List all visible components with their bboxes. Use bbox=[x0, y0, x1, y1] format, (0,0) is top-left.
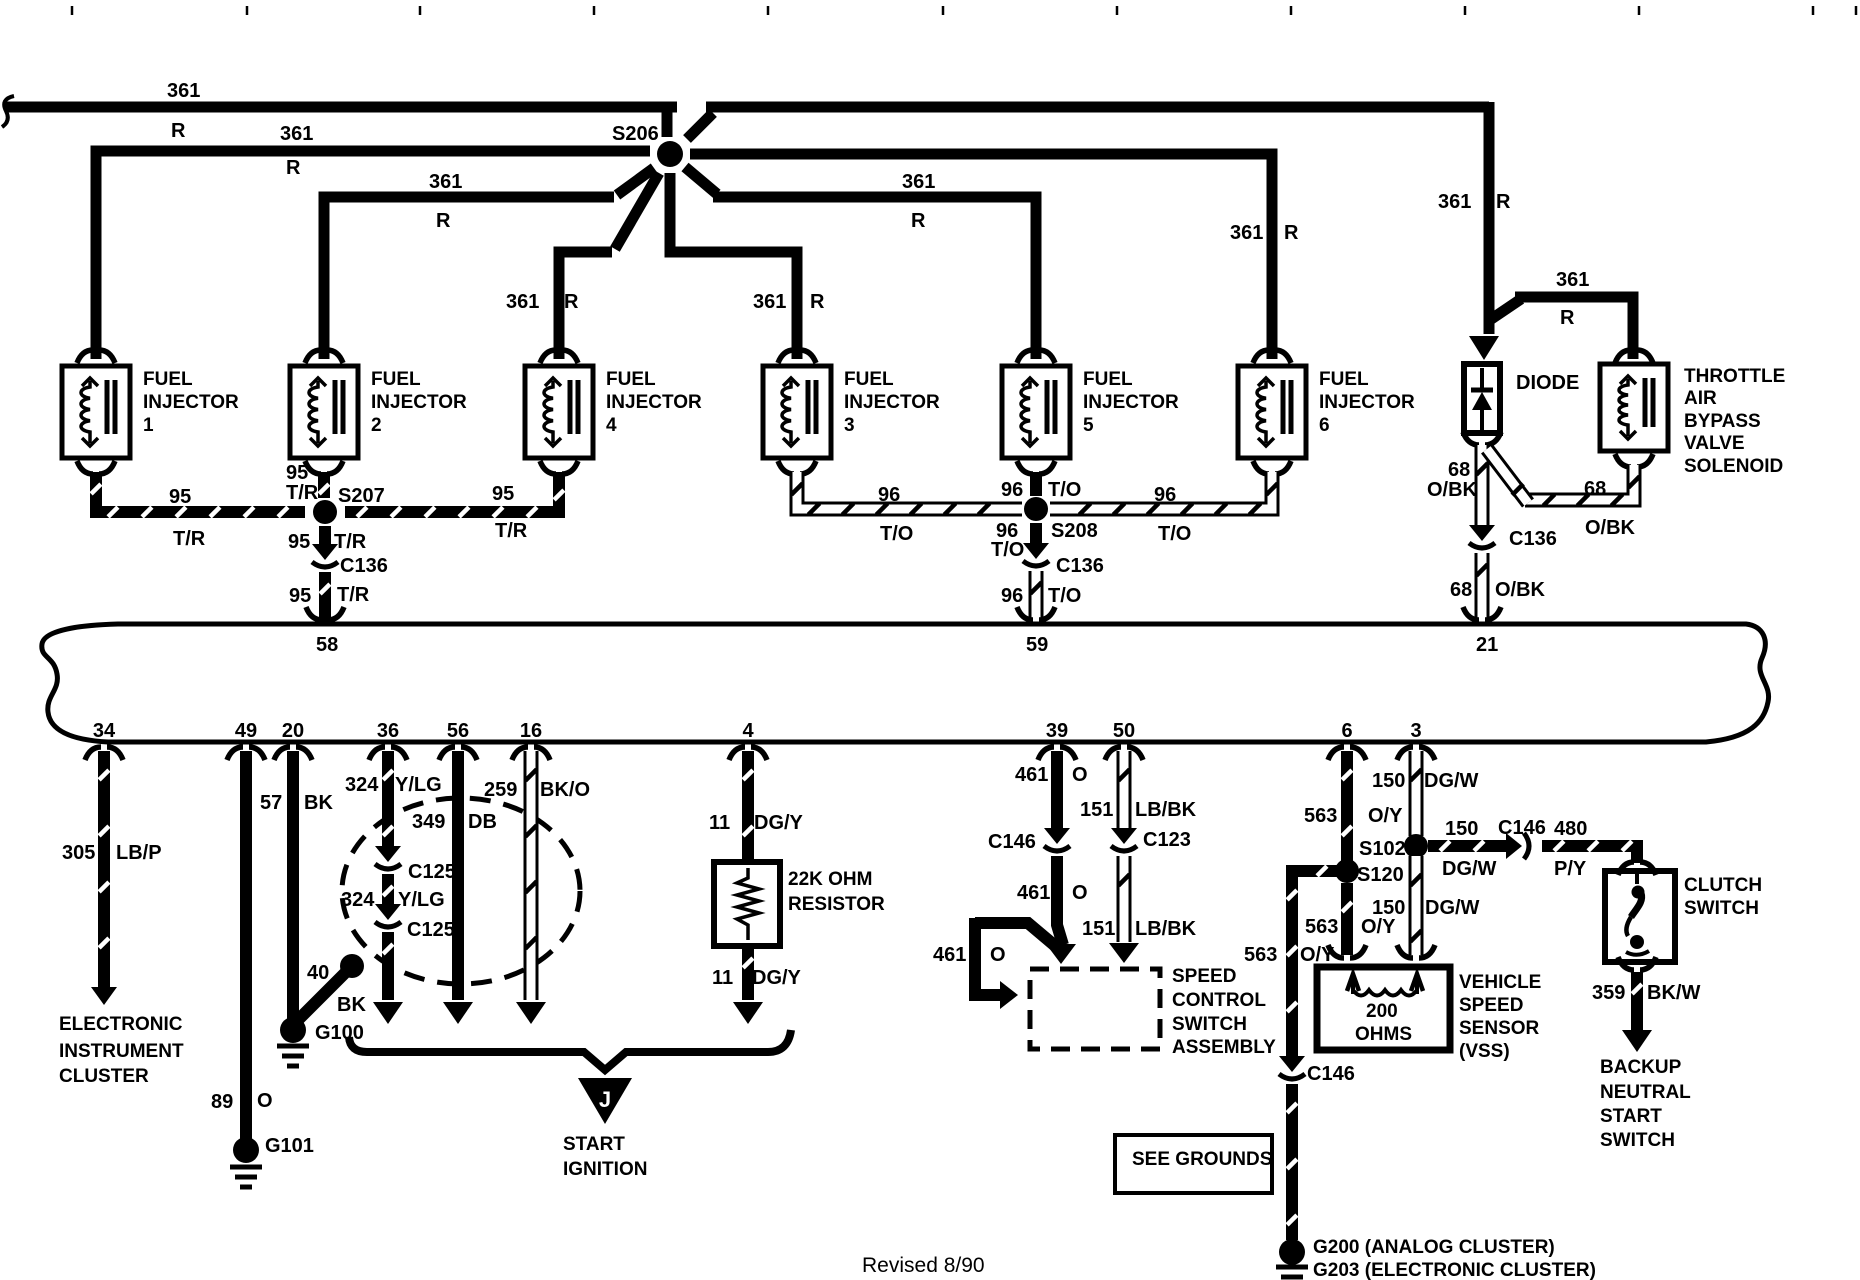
svg-text:R: R bbox=[1284, 222, 1299, 244]
svg-text:461: 461 bbox=[933, 944, 966, 966]
svg-text:CONTROL: CONTROL bbox=[1172, 990, 1266, 1011]
ground G200/G203 bbox=[1279, 1239, 1305, 1265]
connector C123 bbox=[1111, 828, 1137, 844]
connector C146 ground branch bbox=[1279, 1056, 1305, 1072]
splice S208 bbox=[1024, 497, 1048, 521]
svg-text:G101: G101 bbox=[265, 1135, 314, 1157]
svg-text:96: 96 bbox=[878, 484, 900, 506]
wire 57 BK bbox=[287, 751, 299, 1022]
wire 96 T/O inj3 to S208 bbox=[797, 472, 1022, 509]
svg-text:RESISTOR: RESISTOR bbox=[788, 894, 885, 915]
wire 95 T/R S207 down bbox=[319, 526, 331, 546]
connector C136 left bbox=[312, 544, 338, 560]
diode D (box) bbox=[1464, 364, 1500, 433]
svg-text:95: 95 bbox=[169, 486, 191, 508]
svg-text:VEHICLE: VEHICLE bbox=[1459, 972, 1541, 993]
wire 96 T/O to pin 59 bbox=[1029, 571, 1044, 622]
svg-text:FUEL: FUEL bbox=[844, 369, 894, 390]
pin 59 bus connector bbox=[1017, 607, 1033, 620]
svg-text:C136: C136 bbox=[1056, 555, 1104, 577]
svg-text:BACKUP: BACKUP bbox=[1600, 1057, 1682, 1078]
svg-text:68: 68 bbox=[1448, 459, 1470, 481]
svg-text:T/R: T/R bbox=[337, 584, 370, 606]
svg-text:96: 96 bbox=[1001, 479, 1023, 501]
svg-text:68: 68 bbox=[1450, 579, 1472, 601]
svg-text:R: R bbox=[1560, 307, 1575, 329]
svg-text:LB/BK: LB/BK bbox=[1135, 799, 1197, 821]
pin 49 connector bbox=[227, 747, 243, 760]
clutch switch bbox=[1605, 871, 1675, 962]
wire 68 O/BK solenoid branch bbox=[1525, 465, 1634, 500]
wire 95 T/R S207 to inj4 bbox=[345, 472, 559, 512]
pin 36 connector bbox=[369, 747, 385, 760]
arrow wire 36 bbox=[373, 1002, 403, 1024]
arrow wire 16 bbox=[516, 1002, 546, 1024]
svg-text:BYPASS: BYPASS bbox=[1684, 411, 1761, 432]
fuel injector 1 bbox=[62, 366, 130, 458]
pin 16 connector bbox=[512, 747, 528, 760]
svg-text:C146: C146 bbox=[1498, 817, 1546, 839]
svg-text:3: 3 bbox=[1410, 720, 1421, 742]
connector C146 horizontal bbox=[1506, 833, 1522, 859]
svg-text:LB/P: LB/P bbox=[116, 842, 162, 864]
pin 21 bus connector bbox=[1463, 607, 1479, 620]
svg-text:S120: S120 bbox=[1357, 864, 1404, 886]
svg-text:95: 95 bbox=[289, 585, 311, 607]
svg-text:361: 361 bbox=[506, 291, 539, 313]
connector C136 right bbox=[1469, 525, 1495, 541]
svg-text:FUEL: FUEL bbox=[371, 369, 421, 390]
svg-text:CLUTCH: CLUTCH bbox=[1684, 875, 1762, 896]
ground G101 bbox=[233, 1137, 259, 1163]
svg-text:START: START bbox=[1600, 1106, 1662, 1127]
svg-text:89: 89 bbox=[211, 1091, 233, 1113]
svg-text:DG/W: DG/W bbox=[1442, 858, 1497, 880]
clutch switch top connector bbox=[1618, 862, 1634, 875]
svg-text:ASSEMBLY: ASSEMBLY bbox=[1172, 1037, 1276, 1058]
pin 20 connector bbox=[274, 747, 290, 760]
fuel injector 6 top connector bbox=[1253, 350, 1269, 363]
svg-text:11: 11 bbox=[712, 967, 733, 989]
svg-text:59: 59 bbox=[1026, 634, 1048, 656]
wire 96 T/O inj6 to S208 bbox=[1050, 472, 1272, 509]
fuel injector 5 bbox=[1002, 366, 1070, 458]
wire 150 DG/W from S102 bbox=[1428, 840, 1508, 852]
svg-text:361: 361 bbox=[753, 291, 786, 313]
svg-text:O: O bbox=[1072, 764, 1088, 786]
svg-text:START: START bbox=[563, 1134, 625, 1155]
fuel injector 1 top connector bbox=[77, 350, 93, 363]
wire 151 LB/BK lower bbox=[1117, 856, 1132, 942]
wire 324 Y/LG lower bbox=[382, 932, 394, 1000]
svg-text:G200 (ANALOG CLUSTER): G200 (ANALOG CLUSTER) bbox=[1313, 1237, 1555, 1258]
wire to fuel injector 3 bbox=[670, 173, 797, 359]
svg-text:DG/Y: DG/Y bbox=[752, 967, 802, 989]
fuel injector 3 bbox=[763, 366, 831, 458]
svg-text:O/BK: O/BK bbox=[1585, 517, 1636, 539]
svg-text:SWITCH: SWITCH bbox=[1600, 1130, 1675, 1151]
svg-text:C125: C125 bbox=[408, 861, 456, 883]
fuel injector 1 bottom connector bbox=[77, 461, 93, 474]
svg-text:150: 150 bbox=[1372, 770, 1405, 792]
svg-text:34: 34 bbox=[93, 720, 116, 742]
svg-text:FUEL: FUEL bbox=[143, 369, 193, 390]
svg-text:BK: BK bbox=[304, 792, 333, 814]
svg-text:361: 361 bbox=[1230, 222, 1263, 244]
svg-text:FUEL: FUEL bbox=[606, 369, 656, 390]
svg-text:FUEL: FUEL bbox=[1319, 369, 1369, 390]
throttle air bypass valve solenoid top connector bbox=[1615, 350, 1631, 363]
fuel injector 3 bottom connector bbox=[778, 461, 794, 474]
svg-text:349: 349 bbox=[412, 811, 445, 833]
svg-text:J: J bbox=[599, 1087, 611, 1112]
svg-text:SPEED: SPEED bbox=[1459, 995, 1523, 1016]
svg-text:OHMS: OHMS bbox=[1355, 1024, 1412, 1045]
svg-text:SOLENOID: SOLENOID bbox=[1684, 456, 1783, 477]
svg-text:56: 56 bbox=[447, 720, 469, 742]
svg-text:Y/LG: Y/LG bbox=[398, 889, 445, 911]
brace start ignition bbox=[349, 1030, 791, 1070]
svg-text:461: 461 bbox=[1017, 882, 1050, 904]
svg-text:DIODE: DIODE bbox=[1516, 372, 1579, 394]
svg-text:S207: S207 bbox=[338, 485, 385, 507]
svg-text:150: 150 bbox=[1445, 818, 1478, 840]
svg-text:S208: S208 bbox=[1051, 520, 1098, 542]
svg-text:T/R: T/R bbox=[334, 531, 367, 553]
svg-text:95: 95 bbox=[286, 462, 308, 484]
svg-text:49: 49 bbox=[235, 720, 257, 742]
fuel injector 2 top connector bbox=[305, 350, 321, 363]
connector bubble C125 (dashed) bbox=[342, 798, 580, 984]
fuel injector 4 bbox=[525, 366, 593, 458]
wire 361 main feed (net 361, R) bbox=[6, 102, 677, 113]
svg-text:C125: C125 bbox=[407, 919, 455, 941]
svg-text:C146: C146 bbox=[988, 831, 1036, 853]
svg-text:INJECTOR: INJECTOR bbox=[844, 392, 940, 413]
svg-text:SENSOR: SENSOR bbox=[1459, 1018, 1540, 1039]
junction J marker bbox=[578, 1078, 632, 1124]
svg-text:R: R bbox=[911, 210, 926, 232]
fuel injector 6 bbox=[1238, 366, 1306, 458]
wire 40 BK jumper bbox=[294, 966, 352, 1024]
wire 324 Y/LG upper bbox=[382, 751, 394, 850]
wire 461 O stub bbox=[975, 923, 1060, 950]
pin 3 connector bbox=[1397, 747, 1413, 760]
svg-text:151: 151 bbox=[1082, 918, 1115, 940]
connector C146 pin39 bbox=[1044, 828, 1070, 844]
svg-text:151: 151 bbox=[1080, 799, 1113, 821]
fuel injector 2 bottom connector bbox=[305, 461, 321, 474]
svg-text:259: 259 bbox=[484, 779, 517, 801]
VSS right connector bbox=[1397, 945, 1413, 958]
svg-text:C123: C123 bbox=[1143, 829, 1191, 851]
svg-text:SWITCH: SWITCH bbox=[1684, 898, 1759, 919]
diode bottom connector bbox=[1463, 432, 1479, 445]
svg-text:O/Y: O/Y bbox=[1368, 805, 1403, 827]
svg-text:O/Y: O/Y bbox=[1300, 944, 1335, 966]
wire 259 BK/O bbox=[524, 751, 539, 1000]
svg-text:563: 563 bbox=[1305, 916, 1338, 938]
svg-text:CLUSTER: CLUSTER bbox=[59, 1066, 149, 1087]
svg-text:C136: C136 bbox=[1509, 528, 1557, 550]
arrow wire 4 bbox=[733, 1002, 763, 1024]
svg-text:T/O: T/O bbox=[991, 539, 1024, 561]
wire to fuel injector 4 bbox=[559, 252, 612, 359]
svg-text:O: O bbox=[990, 944, 1006, 966]
wire to fuel injector 2 bbox=[324, 197, 614, 359]
svg-text:58: 58 bbox=[316, 634, 338, 656]
throttle air bypass valve solenoid bbox=[1600, 364, 1668, 451]
svg-text:4: 4 bbox=[606, 415, 617, 436]
svg-text:11: 11 bbox=[709, 812, 730, 834]
svg-text:VALVE: VALVE bbox=[1684, 433, 1745, 454]
fuel injector 5 bottom connector bbox=[1017, 461, 1033, 474]
svg-text:6: 6 bbox=[1341, 720, 1352, 742]
svg-text:21: 21 bbox=[1476, 634, 1498, 656]
wire 68 O/BK to pin 21 bbox=[1475, 553, 1490, 622]
arrow to instrument cluster bbox=[91, 987, 117, 1005]
fuel injector 4 bottom connector bbox=[540, 461, 556, 474]
svg-text:461: 461 bbox=[1015, 764, 1048, 786]
fuel injector 4 top connector bbox=[540, 350, 556, 363]
svg-text:T/R: T/R bbox=[173, 528, 206, 550]
splice S207 bbox=[313, 500, 337, 524]
svg-text:T/O: T/O bbox=[1048, 479, 1081, 501]
svg-text:39: 39 bbox=[1046, 720, 1068, 742]
svg-text:40: 40 bbox=[307, 962, 329, 984]
svg-text:T/O: T/O bbox=[880, 523, 913, 545]
svg-text:S206: S206 bbox=[612, 123, 659, 145]
svg-text:R: R bbox=[436, 210, 451, 232]
svg-text:O/BK: O/BK bbox=[1427, 479, 1478, 501]
speed control switch assembly (dashed box) bbox=[1030, 969, 1160, 1049]
svg-text:480: 480 bbox=[1554, 818, 1587, 840]
svg-text:150: 150 bbox=[1372, 897, 1405, 919]
svg-text:6: 6 bbox=[1319, 415, 1330, 436]
svg-text:G100: G100 bbox=[315, 1022, 364, 1044]
svg-text:R: R bbox=[171, 120, 186, 142]
svg-text:4: 4 bbox=[742, 720, 754, 742]
svg-text:O: O bbox=[1072, 882, 1088, 904]
vehicle speed sensor 200 ohms bbox=[1317, 967, 1450, 1050]
clutch switch bottom connector bbox=[1618, 957, 1634, 970]
arrow wire 39 into speed control bbox=[1046, 944, 1076, 964]
svg-text:P/Y: P/Y bbox=[1554, 858, 1587, 880]
ECM connector bus bar bbox=[42, 624, 1769, 742]
svg-text:G203 (ELECTRONIC CLUSTER): G203 (ELECTRONIC CLUSTER) bbox=[1313, 1260, 1596, 1280]
svg-text:SWITCH: SWITCH bbox=[1172, 1014, 1247, 1035]
svg-text:O/Y: O/Y bbox=[1361, 916, 1396, 938]
svg-text:68: 68 bbox=[1584, 478, 1606, 500]
wire to fuel injector 5 bbox=[685, 167, 717, 194]
pin 50 connector bbox=[1105, 747, 1121, 760]
svg-text:20: 20 bbox=[282, 720, 304, 742]
svg-text:O/BK: O/BK bbox=[1495, 579, 1546, 601]
fuel injector 5 top connector bbox=[1017, 350, 1033, 363]
svg-text:50: 50 bbox=[1113, 720, 1135, 742]
svg-text:DG/W: DG/W bbox=[1424, 770, 1479, 792]
svg-text:5: 5 bbox=[1083, 415, 1094, 436]
wire 461 O lower bbox=[1057, 856, 1063, 945]
pin 6 connector bbox=[1328, 747, 1344, 760]
svg-text:INSTRUMENT: INSTRUMENT bbox=[59, 1041, 184, 1062]
svg-text:O: O bbox=[257, 1090, 273, 1112]
svg-text:361: 361 bbox=[902, 171, 935, 193]
pin 39 connector bbox=[1038, 747, 1054, 760]
svg-text:R: R bbox=[286, 157, 301, 179]
svg-text:T/R: T/R bbox=[495, 520, 528, 542]
wire 361 to throttle solenoid bbox=[1487, 299, 1521, 322]
wire 150 DG/W to VSS bbox=[1409, 856, 1424, 955]
connector C125 lower bbox=[375, 904, 401, 920]
wire 461 O upper bbox=[1051, 751, 1063, 832]
svg-text:SEE GROUNDS: SEE GROUNDS bbox=[1132, 1149, 1272, 1170]
svg-text:R: R bbox=[1496, 191, 1511, 213]
svg-text:359: 359 bbox=[1592, 982, 1625, 1004]
ground G100 bbox=[280, 1017, 306, 1043]
connector C125 upper bbox=[375, 846, 401, 862]
svg-text:DB: DB bbox=[468, 811, 497, 833]
wire 96 T/O S208 down bbox=[1030, 523, 1042, 545]
svg-text:INJECTOR: INJECTOR bbox=[606, 392, 702, 413]
fuel injector 3 top connector bbox=[778, 350, 794, 363]
see grounds box bbox=[1115, 1135, 1272, 1193]
svg-text:R: R bbox=[564, 291, 579, 313]
svg-text:INJECTOR: INJECTOR bbox=[143, 392, 239, 413]
svg-text:57: 57 bbox=[260, 792, 282, 814]
wire 305 LB/P bbox=[98, 751, 110, 988]
wire 349 DB bbox=[452, 751, 464, 1000]
svg-text:LB/BK: LB/BK bbox=[1135, 918, 1197, 940]
wire 11 DG/Y upper bbox=[742, 751, 754, 862]
wire to fuel injector 1 bbox=[96, 151, 650, 359]
svg-text:1: 1 bbox=[143, 415, 154, 436]
svg-text:361: 361 bbox=[1438, 191, 1471, 213]
svg-text:3: 3 bbox=[844, 415, 855, 436]
svg-text:361: 361 bbox=[1556, 269, 1589, 291]
arrow into diode bbox=[1469, 336, 1499, 360]
arrow wire 50 into speed control bbox=[1109, 943, 1139, 963]
svg-text:324: 324 bbox=[345, 774, 379, 796]
arrow wire 56 bbox=[443, 1002, 473, 1024]
svg-text:INJECTOR: INJECTOR bbox=[1319, 392, 1415, 413]
svg-text:T/O: T/O bbox=[1158, 523, 1191, 545]
svg-text:22K OHM: 22K OHM bbox=[788, 869, 872, 890]
VSS left connector bbox=[1328, 945, 1344, 958]
throttle solenoid bottom connector bbox=[1615, 454, 1631, 467]
svg-text:305: 305 bbox=[62, 842, 95, 864]
wire 563 O/Y to VSS bbox=[1341, 883, 1353, 955]
svg-text:361: 361 bbox=[280, 123, 313, 145]
wire 89 O bbox=[240, 751, 252, 1140]
svg-text:S102: S102 bbox=[1359, 838, 1406, 860]
wire 480 P/Y bbox=[1542, 846, 1637, 863]
svg-text:C136: C136 bbox=[340, 555, 388, 577]
svg-text:361: 361 bbox=[429, 171, 462, 193]
svg-text:INJECTOR: INJECTOR bbox=[1083, 392, 1179, 413]
svg-text:T/O: T/O bbox=[1048, 585, 1081, 607]
wire 150 DG/W upper bbox=[1409, 751, 1424, 836]
wire 563 O/Y upper bbox=[1341, 751, 1353, 862]
splice S206 bbox=[657, 141, 683, 167]
svg-text:C146: C146 bbox=[1307, 1063, 1355, 1085]
svg-text:(VSS): (VSS) bbox=[1459, 1041, 1510, 1062]
svg-text:DG/W: DG/W bbox=[1425, 897, 1480, 919]
wire 95 T/R inj2 to S207 bbox=[318, 472, 330, 498]
wire 361 right run to diode drop bbox=[687, 113, 713, 139]
resistor 22K OHM bbox=[714, 862, 780, 946]
svg-text:Y/LG: Y/LG bbox=[395, 774, 442, 796]
wire 11 DG/Y lower bbox=[742, 946, 754, 1000]
svg-text:96: 96 bbox=[1154, 484, 1176, 506]
svg-text:INJECTOR: INJECTOR bbox=[371, 392, 467, 413]
svg-text:563: 563 bbox=[1244, 944, 1277, 966]
wire 359 BK/W bbox=[1631, 972, 1643, 1030]
fuel injector 6 bottom connector bbox=[1253, 461, 1269, 474]
svg-text:95: 95 bbox=[288, 531, 310, 553]
pin 58 bus connector bbox=[306, 607, 322, 620]
svg-text:BK/W: BK/W bbox=[1647, 982, 1700, 1004]
arrow to backup switch bbox=[1622, 1030, 1652, 1052]
fuel injector 2 bbox=[290, 366, 358, 458]
connector C136 middle bbox=[1023, 543, 1049, 559]
svg-text:36: 36 bbox=[377, 720, 399, 742]
svg-text:BK/O: BK/O bbox=[540, 779, 590, 801]
wire 95 T/R to pin 58 bbox=[319, 572, 331, 622]
svg-text:16: 16 bbox=[520, 720, 542, 742]
svg-text:96: 96 bbox=[1001, 585, 1023, 607]
top ruler ticks bbox=[71, 6, 74, 15]
wire 151 LB/BK upper bbox=[1117, 751, 1132, 832]
pin 56 connector bbox=[439, 747, 455, 760]
svg-text:200: 200 bbox=[1366, 1001, 1398, 1022]
wire 563 O/Y to ground bbox=[1286, 1084, 1298, 1240]
svg-text:R: R bbox=[810, 291, 825, 313]
node 40 bbox=[340, 954, 364, 978]
wire to fuel injector 6 bbox=[690, 154, 1272, 359]
svg-text:563: 563 bbox=[1304, 805, 1337, 827]
svg-text:2: 2 bbox=[371, 415, 382, 436]
svg-text:IGNITION: IGNITION bbox=[563, 1159, 647, 1180]
svg-text:DG/Y: DG/Y bbox=[754, 812, 804, 834]
svg-text:FUEL: FUEL bbox=[1083, 369, 1133, 390]
wire 68 O/BK below diode bbox=[1475, 445, 1490, 528]
svg-text:ELECTRONIC: ELECTRONIC bbox=[59, 1014, 183, 1035]
arrow stub into speed control bbox=[1000, 981, 1018, 1009]
splice S102 bbox=[1404, 834, 1428, 858]
svg-text:Revised 8/90: Revised 8/90 bbox=[862, 1254, 985, 1277]
wire 324 Y/LG middle bbox=[382, 874, 394, 908]
wire 95 T/R inj1 to S207 bbox=[96, 472, 305, 512]
svg-text:BK: BK bbox=[337, 994, 366, 1016]
svg-text:AIR: AIR bbox=[1684, 388, 1717, 409]
svg-text:T/R: T/R bbox=[286, 482, 319, 504]
svg-text:95: 95 bbox=[492, 483, 514, 505]
svg-text:324: 324 bbox=[341, 889, 375, 911]
svg-text:NEUTRAL: NEUTRAL bbox=[1600, 1082, 1691, 1103]
wire 563 O/Y S120 branch bbox=[1292, 871, 1339, 1058]
wire 96 T/O inj5 to S208 bbox=[1030, 472, 1042, 496]
svg-text:THROTTLE: THROTTLE bbox=[1684, 366, 1785, 387]
pin 4 connector bbox=[729, 747, 745, 760]
pin 34 connector bbox=[85, 747, 101, 760]
splice S120 bbox=[1335, 859, 1359, 883]
svg-text:SPEED: SPEED bbox=[1172, 966, 1236, 987]
svg-text:361: 361 bbox=[167, 80, 200, 102]
